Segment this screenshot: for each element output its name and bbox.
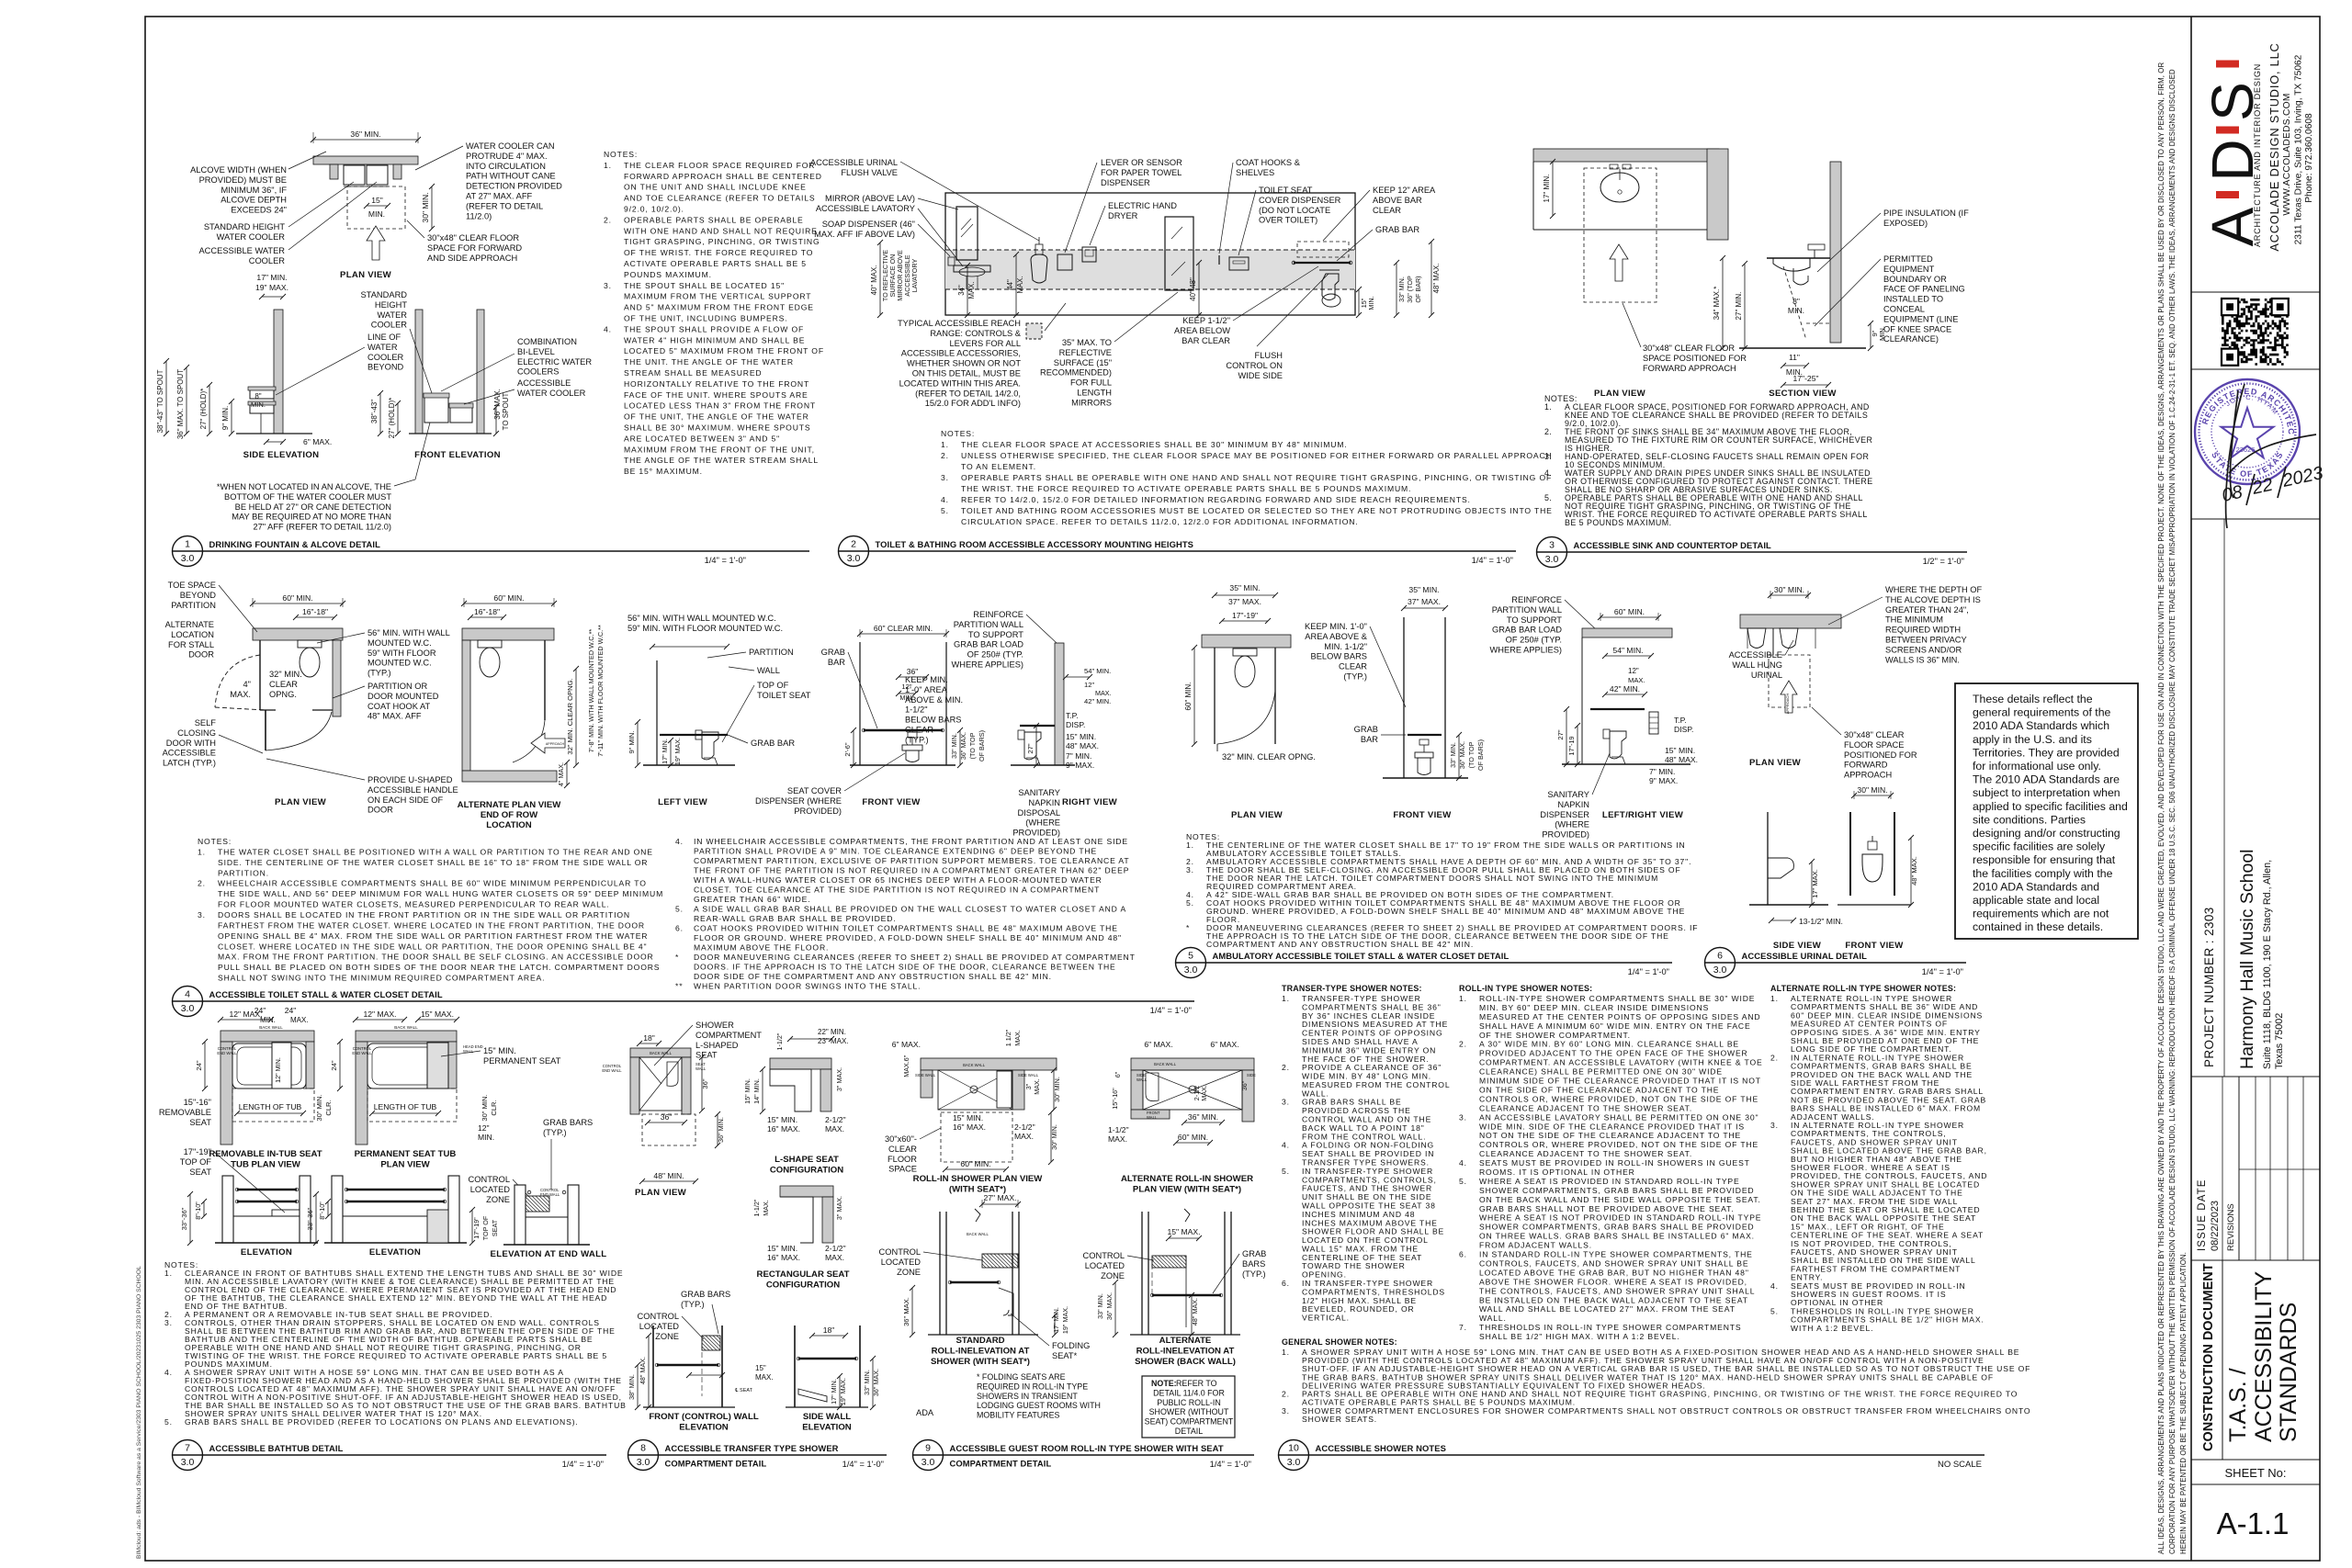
grab bar bbox=[237, 1201, 297, 1202]
svg-text:PERMANENT SEAT: PERMANENT SEAT bbox=[483, 1056, 561, 1066]
svg-text:3.: 3. bbox=[941, 473, 949, 482]
svg-text:MIN.: MIN. bbox=[478, 1133, 494, 1142]
title block left border bbox=[2190, 17, 2192, 1561]
svg-text:36" MAX.: 36" MAX. bbox=[493, 389, 502, 420]
svg-text:4.: 4. bbox=[1544, 468, 1552, 478]
svg-text:BACK WALL: BACK WALL bbox=[650, 1051, 672, 1055]
detail 7 permanent seat bbox=[427, 1043, 448, 1089]
svg-text:the facilities comply with the: the facilities comply with the bbox=[1973, 867, 2113, 880]
svg-text:OPENING SHALL BE 4" MAX. FROM: OPENING SHALL BE 4" MAX. FROM THE SIDE W… bbox=[218, 931, 648, 941]
svg-text:3.0: 3.0 bbox=[1184, 964, 1198, 976]
svg-text:4.: 4. bbox=[604, 324, 612, 333]
svg-text:VERTICAL.: VERTICAL. bbox=[1302, 1314, 1350, 1323]
svg-text:FLOOR OR GROUND. WHERE PROVIDE: FLOOR OR GROUND. WHERE PROVIDED, A FOLD-… bbox=[694, 933, 1122, 942]
svg-text:2311 Texas Drive, Suite 103, I: 2311 Texas Drive, Suite 103, Irving, TX … bbox=[2294, 54, 2304, 244]
svg-text:ELECTRIC WATER: ELECTRIC WATER bbox=[517, 357, 592, 367]
svg-text:Territories. They are provide: Territories. They are provided bbox=[1973, 746, 2120, 759]
svg-text:MAX.: MAX. bbox=[1013, 1030, 1022, 1046]
svg-text:2.: 2. bbox=[941, 451, 949, 460]
svg-text:CONCEAL: CONCEAL bbox=[1883, 305, 1925, 314]
svg-text:SANITARY: SANITARY bbox=[1547, 790, 1589, 799]
svg-text:17"-19": 17"-19" bbox=[184, 1147, 211, 1156]
svg-text:18": 18" bbox=[823, 1325, 835, 1335]
svg-text:TOILET & BATHING ROOM ACCESSIB: TOILET & BATHING ROOM ACCESSIBLE ACCESSO… bbox=[876, 539, 1194, 549]
svg-text:17" MIN.: 17" MIN. bbox=[830, 1379, 838, 1404]
svg-text:17"-19: 17"-19 bbox=[1567, 737, 1576, 756]
svg-text:ZONE: ZONE bbox=[897, 1268, 921, 1277]
svg-text:ON THREE WALLS. GRAB BARS SHAL: ON THREE WALLS. GRAB BARS SHALL BE INSTA… bbox=[1479, 1232, 1755, 1241]
svg-text:COOLERS: COOLERS bbox=[517, 367, 559, 377]
svg-text:A SIDE WALL GRAB BAR SHALL BE: A SIDE WALL GRAB BAR SHALL BE PROVIDED O… bbox=[694, 905, 1126, 914]
detail 8 plan view walls bbox=[630, 1048, 691, 1057]
svg-text:ROLL-IN-TYPE SHOWER COMPARTMEN: ROLL-IN-TYPE SHOWER COMPARTMENTS SHALL B… bbox=[1479, 994, 1755, 1003]
svg-text:6.: 6. bbox=[1282, 1279, 1290, 1288]
svg-text:CLOSING: CLOSING bbox=[177, 728, 216, 738]
svg-text:24": 24" bbox=[285, 1006, 297, 1015]
svg-text:WALL AND SHALL BE LOCATED 27": WALL AND SHALL BE LOCATED 27" MAX. FROM … bbox=[1479, 1304, 1736, 1314]
svg-text:TYPICAL ACCESSIBLE REACH: TYPICAL ACCESSIBLE REACH bbox=[898, 319, 1021, 328]
svg-text:1/4" = 1'-0": 1/4" = 1'-0" bbox=[705, 556, 746, 565]
svg-text:SHOWER (WITHOUT: SHOWER (WITHOUT bbox=[1149, 1407, 1229, 1416]
svg-text:Harmony Hall Music School: Harmony Hall Music School bbox=[2237, 850, 2257, 1070]
svg-text:60" CLEAR MIN.: 60" CLEAR MIN. bbox=[874, 624, 933, 633]
detail 4 alternate plan door and arrow bbox=[544, 640, 546, 720]
detail 1 plan dimensions bbox=[313, 139, 418, 141]
svg-text:A-1.1: A-1.1 bbox=[2217, 1506, 2290, 1540]
svg-text:REINFORCE: REINFORCE bbox=[973, 610, 1023, 619]
svg-text:WALL: WALL bbox=[757, 666, 780, 675]
svg-text:48" MAX.: 48" MAX. bbox=[1191, 1298, 1199, 1325]
svg-text:TOP OF: TOP OF bbox=[757, 681, 789, 690]
svg-text:SOAP DISPENSER (46": SOAP DISPENSER (46" bbox=[822, 220, 915, 229]
svg-text:OF THE UNIT, THE ANGLE OF THE: OF THE UNIT, THE ANGLE OF THE WATER bbox=[624, 412, 809, 422]
svg-text:19" MAX.: 19" MAX. bbox=[673, 738, 682, 765]
svg-text:(DO NOT LOCATE: (DO NOT LOCATE bbox=[1259, 206, 1330, 215]
svg-text:These details reflect the: These details reflect the bbox=[1973, 693, 2093, 705]
svg-text:THE ALCOVE DEPTH IS: THE ALCOVE DEPTH IS bbox=[1885, 595, 1981, 604]
svg-text:FRONT (CONTROL) WALL: FRONT (CONTROL) WALL bbox=[649, 1412, 759, 1422]
svg-text:HORIZONTALLY RELATIVE TO THE F: HORIZONTALLY RELATIVE TO THE FRONT bbox=[624, 379, 809, 389]
svg-text:END WALL: END WALL bbox=[602, 1068, 622, 1073]
svg-text:THE ANGLE OF THE WATER STREAM: THE ANGLE OF THE WATER STREAM SHALL bbox=[624, 456, 819, 465]
svg-text:3.: 3. bbox=[164, 1318, 173, 1327]
svg-text:4: 4 bbox=[185, 989, 190, 1000]
svg-text:12" MAX.: 12" MAX. bbox=[363, 1010, 396, 1019]
svg-text:34": 34" bbox=[957, 285, 966, 296]
svg-text:LEFT/RIGHT VIEW: LEFT/RIGHT VIEW bbox=[1602, 810, 1684, 820]
grab bar bbox=[237, 1189, 297, 1190]
svg-text:T.P.: T.P. bbox=[1066, 711, 1079, 720]
svg-text:COMPARTMENT PARTITION, EXCLUSI: COMPARTMENT PARTITION, EXCLUSIVE OF PART… bbox=[694, 856, 1129, 865]
detail 2 full length mirror bbox=[1165, 217, 1193, 290]
svg-text:NOTES:: NOTES: bbox=[941, 429, 975, 438]
svg-text:REVISIONS: REVISIONS bbox=[2226, 1203, 2236, 1251]
svg-text:36" (TOP: 36" (TOP bbox=[1406, 276, 1414, 303]
svg-text:OF 250# (TYP.: OF 250# (TYP. bbox=[967, 650, 1023, 660]
svg-text:SEAT: SEAT bbox=[189, 1168, 211, 1177]
svg-text:DISP.: DISP. bbox=[1066, 720, 1085, 729]
svg-text:DOOR WITH: DOOR WITH bbox=[166, 739, 216, 748]
svg-text:EQUIPMENT: EQUIPMENT bbox=[1883, 265, 1935, 274]
svg-text:6.: 6. bbox=[675, 924, 684, 933]
svg-text:THRESHOLDS IN ROLL-IN TYPE SHO: THRESHOLDS IN ROLL-IN TYPE SHOWER COMPAR… bbox=[1479, 1323, 1742, 1332]
toilet (front) bbox=[1419, 739, 1429, 745]
svg-text:CONTROLS OR, WHERE PROVIDED, N: CONTROLS OR, WHERE PROVIDED, NOT ON THE … bbox=[1479, 1094, 1758, 1103]
svg-text:STANDARD HEIGHT: STANDARD HEIGHT bbox=[204, 222, 285, 231]
svg-text:HEIGHT: HEIGHT bbox=[375, 300, 407, 310]
svg-text:11/2.0): 11/2.0) bbox=[466, 211, 492, 220]
svg-text:36": 36" bbox=[661, 1112, 673, 1122]
svg-text:END WALL: END WALL bbox=[217, 1051, 237, 1055]
svg-text:subject to interpretation when: subject to interpretation when bbox=[1973, 786, 2120, 799]
detail 2 paper towel dispenser bbox=[1057, 254, 1072, 270]
svg-text:OF THE WRIST. THE FORCE REQUIR: OF THE WRIST. THE FORCE REQUIRED TO bbox=[624, 248, 813, 257]
svg-text:7: 7 bbox=[185, 1443, 190, 1454]
svg-text:AN ACCESSIBLE LAVATORY SHALL B: AN ACCESSIBLE LAVATORY SHALL BE PERMITTE… bbox=[1479, 1112, 1758, 1122]
svg-text:designing and/or constructing: designing and/or constructing bbox=[1973, 827, 2120, 840]
svg-text:60" MIN.: 60" MIN. bbox=[493, 593, 524, 603]
svg-text:ZONE: ZONE bbox=[655, 1332, 679, 1341]
svg-text:1/4" = 1'-0": 1/4" = 1'-0" bbox=[562, 1460, 604, 1469]
svg-text:THE CONTROLS, FAUCETS, AND SHO: THE CONTROLS, FAUCETS, AND SHOWER SPRAY … bbox=[1479, 1286, 1755, 1295]
detail 4 front view bbox=[860, 633, 946, 635]
svg-text:30" MIN.: 30" MIN. bbox=[421, 192, 430, 222]
svg-text:NOTE:: NOTE: bbox=[1151, 1379, 1177, 1388]
svg-text:5.: 5. bbox=[1459, 1177, 1467, 1186]
svg-text:CONTROL: CONTROL bbox=[879, 1247, 921, 1257]
svg-text:SPACE FOR FORWARD: SPACE FOR FORWARD bbox=[427, 243, 522, 253]
svg-text:1'-0" AREA: 1'-0" AREA bbox=[905, 685, 948, 694]
svg-text:48" MAX.: 48" MAX. bbox=[639, 1357, 647, 1384]
svg-text:MAX.: MAX. bbox=[1095, 689, 1112, 697]
svg-text:ACCESSIBLE: ACCESSIBLE bbox=[1729, 650, 1782, 660]
svg-text:PLAN VIEW: PLAN VIEW bbox=[275, 797, 327, 807]
detail 2 reach range band bbox=[945, 250, 1355, 289]
svg-text:(TYP.): (TYP.) bbox=[367, 669, 391, 678]
svg-text:TOE SPACE: TOE SPACE bbox=[168, 581, 216, 590]
ADA information box bbox=[1955, 683, 2138, 939]
svg-text:COAT HOOKS &: COAT HOOKS & bbox=[1236, 158, 1301, 167]
svg-text:19" MAX.: 19" MAX. bbox=[255, 283, 288, 292]
empty consultant cell divider bbox=[2223, 519, 2225, 1077]
svg-text:2: 2 bbox=[851, 539, 856, 550]
svg-text:13-1/2" MIN.: 13-1/2" MIN. bbox=[1799, 917, 1843, 926]
detail 1 front elevation walls bbox=[415, 310, 423, 434]
svg-text:SIDE ELEVATION: SIDE ELEVATION bbox=[243, 450, 320, 460]
toilet (plan) bbox=[298, 640, 322, 648]
svg-text:WHEN PARTITION DOOR SWINGS INT: WHEN PARTITION DOOR SWINGS INTO THE STAL… bbox=[694, 982, 921, 991]
svg-text:34" MAX.*: 34" MAX.* bbox=[1713, 287, 1721, 321]
toilet (side) bbox=[1018, 730, 1024, 739]
svg-text:CLEARANCE) SHALL BE PERMITTED: CLEARANCE) SHALL BE PERMITTED ONE ON 30"… bbox=[1479, 1067, 1723, 1077]
svg-text:ACCESSIBLE GUEST ROOM ROLL-IN: ACCESSIBLE GUEST ROOM ROLL-IN TYPE SHOWE… bbox=[950, 1443, 1224, 1453]
svg-text:PLAN VIEW: PLAN VIEW bbox=[1749, 758, 1802, 768]
svg-text:ZONE: ZONE bbox=[1101, 1271, 1125, 1280]
svg-text:ACCOLADE DESIGN STUDIO, LLC: ACCOLADE DESIGN STUDIO, LLC bbox=[2267, 42, 2281, 251]
svg-text:WHERE A SEAT IS PROVIDED IN ST: WHERE A SEAT IS PROVIDED IN STANDARD ROL… bbox=[1479, 1177, 1740, 1186]
svg-text:SHOWER COMPARTMENTS, GRAB BARS: SHOWER COMPARTMENTS, GRAB BARS SHALL BE … bbox=[1479, 1186, 1754, 1195]
detail 1 approach arrow bbox=[367, 226, 385, 260]
svg-text:17"-19": 17"-19" bbox=[1232, 611, 1258, 620]
svg-text:SEATS MUST BE PROVIDED IN ROLL: SEATS MUST BE PROVIDED IN ROLL-IN SHOWER… bbox=[1479, 1158, 1750, 1168]
svg-text:COMPARTMENT DETAIL: COMPARTMENT DETAIL bbox=[665, 1459, 767, 1469]
svg-text:FORWARD APPROACH SHALL BE CENT: FORWARD APPROACH SHALL BE CENTERED bbox=[624, 172, 822, 181]
svg-text:CLEAR: CLEAR bbox=[1339, 662, 1367, 671]
svg-text:GRAB BAR: GRAB BAR bbox=[1375, 225, 1419, 234]
detail 2 toilet seat cover dispenser bbox=[1229, 257, 1249, 270]
detail 1 title bar bbox=[173, 536, 203, 567]
svg-text:3.0: 3.0 bbox=[637, 1457, 650, 1468]
svg-text:9" MAX.: 9" MAX. bbox=[1649, 776, 1678, 785]
svg-text:16"-18": 16"-18" bbox=[302, 607, 328, 616]
svg-text:AND SIDE APPROACH: AND SIDE APPROACH bbox=[427, 254, 517, 263]
svg-text:NO SCALE: NO SCALE bbox=[1938, 1460, 1982, 1470]
svg-text:WALLS IS 36" MIN.: WALLS IS 36" MIN. bbox=[1885, 655, 1960, 664]
svg-text:1-1/2": 1-1/2" bbox=[752, 1199, 761, 1216]
svg-text:3.0: 3.0 bbox=[1545, 554, 1559, 565]
svg-text:5.: 5. bbox=[164, 1417, 173, 1427]
svg-text:*: * bbox=[1186, 923, 1190, 932]
svg-text:WATER COOLER: WATER COOLER bbox=[217, 232, 286, 242]
grab bar bbox=[346, 1189, 445, 1190]
svg-text:BELOW BARS: BELOW BARS bbox=[1311, 652, 1367, 661]
svg-text:15/2.0 FOR ADD'L INFO): 15/2.0 FOR ADD'L INFO) bbox=[925, 399, 1021, 408]
svg-text:1/4" = 1'-0": 1/4" = 1'-0" bbox=[1472, 556, 1513, 565]
svg-text:TRANSER-TYPE SHOWER NOTES:: TRANSER-TYPE SHOWER NOTES: bbox=[1282, 984, 1422, 993]
svg-text:CONTROL: CONTROL bbox=[638, 1312, 679, 1321]
detail 9 standard elevation bbox=[939, 1212, 941, 1335]
svg-text:BAR: BAR bbox=[828, 658, 845, 667]
svg-text:CLEAR: CLEAR bbox=[269, 680, 298, 689]
detail 1 side elevation coolers bbox=[250, 389, 274, 399]
detail 7 tub 1 dims bbox=[220, 1019, 271, 1021]
svg-text:LENGTH OF TUB: LENGTH OF TUB bbox=[374, 1102, 437, 1111]
svg-text:33" MIN.: 33" MIN. bbox=[1397, 276, 1406, 302]
svg-text:MINIMUM SIDE OF THE CLEARANCE: MINIMUM SIDE OF THE CLEARANCE PROVIDED T… bbox=[1479, 1077, 1761, 1086]
svg-text:LOCATED: LOCATED bbox=[1085, 1261, 1125, 1270]
svg-text:MIN.: MIN. bbox=[260, 1016, 276, 1024]
svg-text:MIN.: MIN. bbox=[1367, 296, 1375, 310]
svg-text:27" MAX.: 27" MAX. bbox=[983, 1193, 1016, 1202]
svg-text:SEAT) COMPARTMENT: SEAT) COMPARTMENT bbox=[1145, 1417, 1234, 1427]
svg-text:1: 1 bbox=[185, 539, 190, 550]
svg-text:23" MAX.: 23" MAX. bbox=[818, 1037, 849, 1045]
svg-text:3.: 3. bbox=[1544, 452, 1552, 461]
svg-text:COOLER: COOLER bbox=[249, 256, 286, 265]
svg-text:WATER COOLER: WATER COOLER bbox=[517, 389, 586, 398]
svg-text:BEYOND: BEYOND bbox=[367, 363, 404, 372]
detail 9 roll-in plan walls bbox=[921, 1058, 1057, 1070]
svg-text:16" MAX.: 16" MAX. bbox=[767, 1253, 800, 1262]
svg-text:TIGHT GRASPING, PINCHING, OR T: TIGHT GRASPING, PINCHING, OR TWISTING bbox=[624, 237, 820, 246]
svg-text:GREATER THAN 66" WIDE.: GREATER THAN 66" WIDE. bbox=[694, 895, 810, 904]
detail 2 hand dryer bbox=[1082, 247, 1096, 262]
svg-text:7'-8" MIN. WITH WALL MOUNTED W: 7'-8" MIN. WITH WALL MOUNTED W.C.** bbox=[587, 629, 595, 753]
svg-text:1.: 1. bbox=[941, 440, 949, 449]
svg-text:L-SHAPED: L-SHAPED bbox=[695, 1041, 739, 1050]
svg-text:WHERE A SEAT IS NOT PROVIDED I: WHERE A SEAT IS NOT PROVIDED IN STANDARD… bbox=[1479, 1213, 1761, 1223]
svg-text:17" MIN.: 17" MIN. bbox=[661, 739, 669, 764]
svg-text:17" MAX.: 17" MAX. bbox=[1811, 869, 1819, 898]
svg-text:BOTTOM OF THE WATER COOLER MUS: BOTTOM OF THE WATER COOLER MUST bbox=[224, 492, 391, 502]
svg-text:FOR STALL: FOR STALL bbox=[168, 640, 214, 649]
svg-text:6: 6 bbox=[1717, 951, 1723, 962]
svg-text:OF THE UNIT, INCLUDING BUMPERS: OF THE UNIT, INCLUDING BUMPERS. bbox=[624, 314, 788, 323]
svg-text:T.A.S. /: T.A.S. / bbox=[2225, 1368, 2251, 1442]
svg-text:SHALL BE 30° MAXIMUM. WHERE SP: SHALL BE 30° MAXIMUM. WHERE SPOUTS bbox=[624, 423, 810, 433]
svg-text:15" MAX.: 15" MAX. bbox=[421, 1010, 454, 1019]
title block cell dividers bbox=[2191, 291, 2320, 293]
svg-text:LEVERS FOR ALL: LEVERS FOR ALL bbox=[949, 339, 1021, 348]
svg-text:30" MIN.: 30" MIN. bbox=[315, 1094, 323, 1121]
detail 8 shower pan and seat bbox=[639, 1057, 682, 1111]
svg-text:WITH A WALL-HUNG WATER CLOSET: WITH A WALL-HUNG WATER CLOSET OR 65 INCH… bbox=[694, 875, 1102, 885]
svg-text:GRAB: GRAB bbox=[1354, 725, 1378, 734]
svg-text:AND TOE CLEARANCE (REFER TO DE: AND TOE CLEARANCE (REFER TO DETAILS bbox=[624, 194, 816, 203]
svg-text:WHERE APPLIES): WHERE APPLIES) bbox=[1489, 646, 1562, 655]
detail 4 plan dims bbox=[253, 603, 343, 604]
svg-text:OPNG.: OPNG. bbox=[269, 690, 297, 699]
detail 9 clearance dashed bbox=[941, 1112, 1012, 1162]
svg-text:MAX.: MAX. bbox=[1108, 1134, 1127, 1144]
detail 1 plan view alcove wall bbox=[313, 156, 418, 164]
svg-text:℄ SEAT: ℄ SEAT bbox=[734, 1388, 753, 1393]
svg-text:12": 12" bbox=[478, 1123, 490, 1133]
svg-text:BI-LEVEL: BI-LEVEL bbox=[517, 347, 555, 356]
svg-text:ELEVATION: ELEVATION bbox=[679, 1423, 729, 1433]
svg-text:ROOMS. IT IS OPTIONAL IN OTHER: ROOMS. IT IS OPTIONAL IN OTHER bbox=[1479, 1168, 1635, 1177]
svg-text:24": 24" bbox=[330, 1060, 338, 1070]
svg-text:PROJECT NUMBER : 2303: PROJECT NUMBER : 2303 bbox=[2202, 907, 2216, 1067]
svg-text:15" MIN.: 15" MIN. bbox=[953, 1113, 983, 1122]
svg-text:GRAB BARS SHALL BE PROVIDED (R: GRAB BARS SHALL BE PROVIDED (REFER TO LO… bbox=[185, 1417, 579, 1427]
svg-text:MAX.: MAX. bbox=[967, 281, 976, 299]
svg-text:LENGTH: LENGTH bbox=[1077, 389, 1112, 398]
svg-text:MAX. FROM THE FRONT PARTITION.: MAX. FROM THE FRONT PARTITION. THE DOOR … bbox=[218, 953, 654, 962]
svg-text:WATER: WATER bbox=[377, 310, 407, 320]
svg-text:ROLL-INELEVATION AT: ROLL-INELEVATION AT bbox=[1136, 1347, 1235, 1357]
svg-text:LENGTH OF TUB: LENGTH OF TUB bbox=[239, 1102, 302, 1111]
svg-text:35" MAX. TO: 35" MAX. TO bbox=[1062, 338, 1112, 347]
svg-text:END WALL: END WALL bbox=[352, 1051, 372, 1055]
svg-text:6": 6" bbox=[1114, 1071, 1122, 1077]
svg-text:ACCESSIBILITY: ACCESSIBILITY bbox=[2251, 1271, 2277, 1442]
detail 6 plan urinals bbox=[1747, 628, 1766, 649]
svg-text:PARTITION SHALL PROVIDE A 9" M: PARTITION SHALL PROVIDE A 9" MIN. TOE CL… bbox=[694, 847, 1097, 856]
svg-text:SELF: SELF bbox=[195, 718, 217, 728]
svg-text:PARTITION WALL: PARTITION WALL bbox=[1492, 605, 1562, 615]
svg-text:END OF ROW: END OF ROW bbox=[481, 810, 538, 820]
svg-text:MAX.: MAX. bbox=[1200, 1085, 1208, 1101]
svg-text:32" MIN. CLEAR OPNG.: 32" MIN. CLEAR OPNG. bbox=[566, 678, 574, 754]
detail 6 side view bbox=[1767, 812, 1769, 905]
svg-text:WATER: WATER bbox=[367, 343, 398, 352]
svg-text:LOCATED: LOCATED bbox=[881, 1258, 922, 1267]
svg-text:MAX.: MAX. bbox=[1628, 676, 1645, 684]
detail 5 plan dims bbox=[1215, 594, 1275, 596]
svg-text:GRAB BAR LOAD: GRAB BAR LOAD bbox=[1492, 626, 1562, 635]
svg-text:LATCH (TYP.): LATCH (TYP.) bbox=[163, 759, 216, 768]
svg-text:TO SPOUT: TO SPOUT bbox=[502, 393, 510, 431]
svg-text:8"-10": 8"-10" bbox=[318, 1201, 326, 1220]
detail 7 removable-seat tub plan walls bbox=[220, 1031, 314, 1042]
svg-text:PARTITION WALL: PARTITION WALL bbox=[954, 620, 1023, 629]
svg-text:3.0: 3.0 bbox=[181, 1457, 195, 1468]
svg-text:SHALL NOT SWING INTO THE MINIM: SHALL NOT SWING INTO THE MINIMUM REQUIRE… bbox=[218, 974, 545, 983]
svg-text:PERMANENT SEAT TUB: PERMANENT SEAT TUB bbox=[355, 1149, 457, 1159]
svg-text:DETAIL 11/4.0 FOR: DETAIL 11/4.0 FOR bbox=[1153, 1388, 1225, 1397]
QR finder patterns bbox=[2222, 299, 2238, 315]
svg-text:PLAN VIEW: PLAN VIEW bbox=[340, 270, 392, 280]
svg-text:FACE OF PANELING: FACE OF PANELING bbox=[1883, 285, 1965, 294]
svg-text:15" MIN.: 15" MIN. bbox=[1665, 746, 1695, 755]
svg-text:DOOR SIDE OF THE COMPARTMENT A: DOOR SIDE OF THE COMPARTMENT AND ANY OBS… bbox=[694, 972, 1052, 981]
svg-text:35" MIN.: 35" MIN. bbox=[1408, 585, 1439, 594]
detail 6 plan dims bbox=[1770, 594, 1808, 596]
svg-text:Suite 1118, BLDG 1100, 190 E S: Suite 1118, BLDG 1100, 190 E Stacy Rd., … bbox=[2262, 860, 2273, 1069]
svg-text:ABOVE BAR: ABOVE BAR bbox=[1373, 196, 1422, 205]
svg-text:TOP OF: TOP OF bbox=[180, 1157, 212, 1167]
svg-text:BELOW BARS: BELOW BARS bbox=[905, 716, 961, 725]
svg-text:FORWARD APPROACH: FORWARD APPROACH bbox=[1643, 364, 1736, 373]
svg-text:33" MIN.: 33" MIN. bbox=[950, 733, 958, 759]
detail 9 alternate plan walls bbox=[1131, 1058, 1254, 1070]
svg-text:08: 08 bbox=[2220, 482, 2244, 506]
svg-text:30" MIN.: 30" MIN. bbox=[1857, 785, 1887, 795]
svg-text:REMOVABLE: REMOVABLE bbox=[159, 1108, 211, 1117]
svg-text:8"-10": 8"-10" bbox=[194, 1201, 202, 1220]
svg-text:COOLER: COOLER bbox=[367, 353, 404, 362]
construction document column divider bbox=[2222, 1260, 2223, 1460]
svg-text:RANGE: CONTROLS &: RANGE: CONTROLS & bbox=[930, 329, 1021, 338]
svg-text:CLR.: CLR. bbox=[490, 1100, 498, 1115]
svg-text:WITH A 1:2 BEVEL.: WITH A 1:2 BEVEL. bbox=[1791, 1324, 1873, 1333]
svg-text:REQUIRED WIDTH: REQUIRED WIDTH bbox=[1885, 626, 1961, 635]
svg-text:COMBINATION: COMBINATION bbox=[517, 337, 577, 346]
svg-text:ELECTRIC HAND: ELECTRIC HAND bbox=[1108, 201, 1177, 210]
svg-text:2'-6": 2'-6" bbox=[843, 742, 852, 756]
svg-text:general requirements of the: general requirements of the bbox=[1973, 706, 2111, 719]
svg-text:48" MIN.: 48" MIN. bbox=[653, 1171, 684, 1180]
svg-text:(TYP.): (TYP.) bbox=[1343, 672, 1367, 682]
svg-text:APPROACH: APPROACH bbox=[546, 742, 565, 746]
svg-text:ALTERNATE ROLL-IN SHOWER: ALTERNATE ROLL-IN SHOWER bbox=[1121, 1174, 1253, 1184]
svg-text:AND 5" MAXIMUM FROM THE FRONT: AND 5" MAXIMUM FROM THE FRONT EDGE bbox=[624, 303, 814, 312]
detail 5 plan view bbox=[1202, 635, 1291, 648]
toilet (side) bbox=[695, 730, 702, 739]
svg-text:CLEAR: CLEAR bbox=[888, 1145, 917, 1154]
detail 3 plan counter walls bbox=[1533, 149, 1719, 162]
svg-text:24": 24" bbox=[195, 1060, 203, 1070]
svg-text:ARE LOCATED BETWEEN 3" AND 5": ARE LOCATED BETWEEN 3" AND 5" bbox=[624, 434, 780, 443]
svg-text:CLEARANCE): CLEARANCE) bbox=[1883, 334, 1939, 344]
svg-text:30"x60"-: 30"x60"- bbox=[885, 1134, 917, 1144]
svg-text:DISPENSER: DISPENSER bbox=[1540, 810, 1589, 819]
svg-text:ABOVE THE SHOWER FLOOR. WHERE: ABOVE THE SHOWER FLOOR. WHERE A SEAT IS … bbox=[1479, 1277, 1747, 1286]
svg-text:ACCESSIBLE BATHTUB DETAIL: ACCESSIBLE BATHTUB DETAIL bbox=[209, 1443, 344, 1453]
svg-text:9" MIN.: 9" MIN. bbox=[628, 730, 636, 753]
svg-text:ALCOVE DEPTH: ALCOVE DEPTH bbox=[220, 196, 287, 205]
svg-text:30"x48" CLEAR FLOOR: 30"x48" CLEAR FLOOR bbox=[1643, 344, 1735, 353]
svg-text:ROLL-IN TYPE SHOWER NOTES:: ROLL-IN TYPE SHOWER NOTES: bbox=[1459, 984, 1592, 993]
svg-text:1/4" = 1'-0": 1/4" = 1'-0" bbox=[1922, 967, 1963, 976]
detail 9 note box bbox=[1142, 1376, 1235, 1438]
svg-text:WHEELCHAIR ACCESSIBLE COMPARTM: WHEELCHAIR ACCESSIBLE COMPARTMENTS SHALL… bbox=[218, 879, 647, 888]
svg-text:36" MAX. TO SPOUT: 36" MAX. TO SPOUT bbox=[176, 369, 185, 439]
svg-text:ISSUE DATE: ISSUE DATE bbox=[2197, 1179, 2208, 1251]
svg-text:17"-19": 17"-19" bbox=[472, 1217, 481, 1239]
svg-text:COMPARTMENT. AN ACCESSIBLE LAV: COMPARTMENT. AN ACCESSIBLE LAVATORY (WIT… bbox=[1479, 1058, 1763, 1067]
